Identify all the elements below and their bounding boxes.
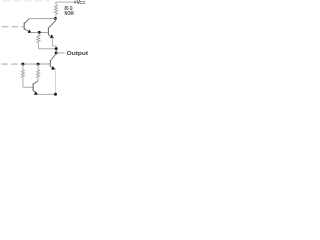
wire R3 bottom to Q3 base xyxy=(23,86,33,88)
node C junction dot xyxy=(54,93,57,96)
node A junction dot xyxy=(55,47,58,50)
transistor Q2 xyxy=(48,19,55,38)
wire output stub xyxy=(56,52,64,54)
transistor Q1 xyxy=(24,19,30,33)
wire Q4 emitter down to node C xyxy=(55,69,57,94)
wire Q2 emitter down to node A xyxy=(52,37,56,53)
Q4 emitter arrow xyxy=(51,66,55,70)
resistor R2 xyxy=(37,32,40,48)
wire bottom rail xyxy=(37,93,55,95)
wire lower rail to Q4 base xyxy=(21,63,50,65)
transistor Q3 xyxy=(33,81,38,94)
node junction dot on emitter rail xyxy=(38,31,41,34)
Q3 emitter arrow xyxy=(34,91,38,95)
svg-text:Output: Output xyxy=(67,51,89,57)
dashed input line 1 xyxy=(2,26,24,28)
node J1 junction dot xyxy=(21,63,24,66)
node B junction dot xyxy=(55,51,58,54)
wire +VCC rail xyxy=(56,2,78,5)
transistor Q4 xyxy=(50,54,55,69)
node J2 junction dot xyxy=(37,63,40,66)
resistor R1 85 ohm xyxy=(54,5,57,17)
svg-text:NOM: NOM xyxy=(65,11,74,17)
Q1 emitter arrow xyxy=(28,30,32,33)
cropped top rule (faint dashes) xyxy=(2,0,50,2)
wire collector rail Q1 to N1 xyxy=(29,18,55,20)
resistor R3 xyxy=(21,64,24,87)
dashed input line 2 xyxy=(1,63,21,65)
resistor R4 xyxy=(37,64,40,81)
Q2 emitter arrow xyxy=(50,34,54,38)
wire emitter rail Q1 to Q2 base xyxy=(30,31,48,33)
node N1 junction dot xyxy=(54,17,57,20)
wire R2 bottom to node A xyxy=(38,48,56,50)
svg-text:CC: CC xyxy=(79,0,86,5)
